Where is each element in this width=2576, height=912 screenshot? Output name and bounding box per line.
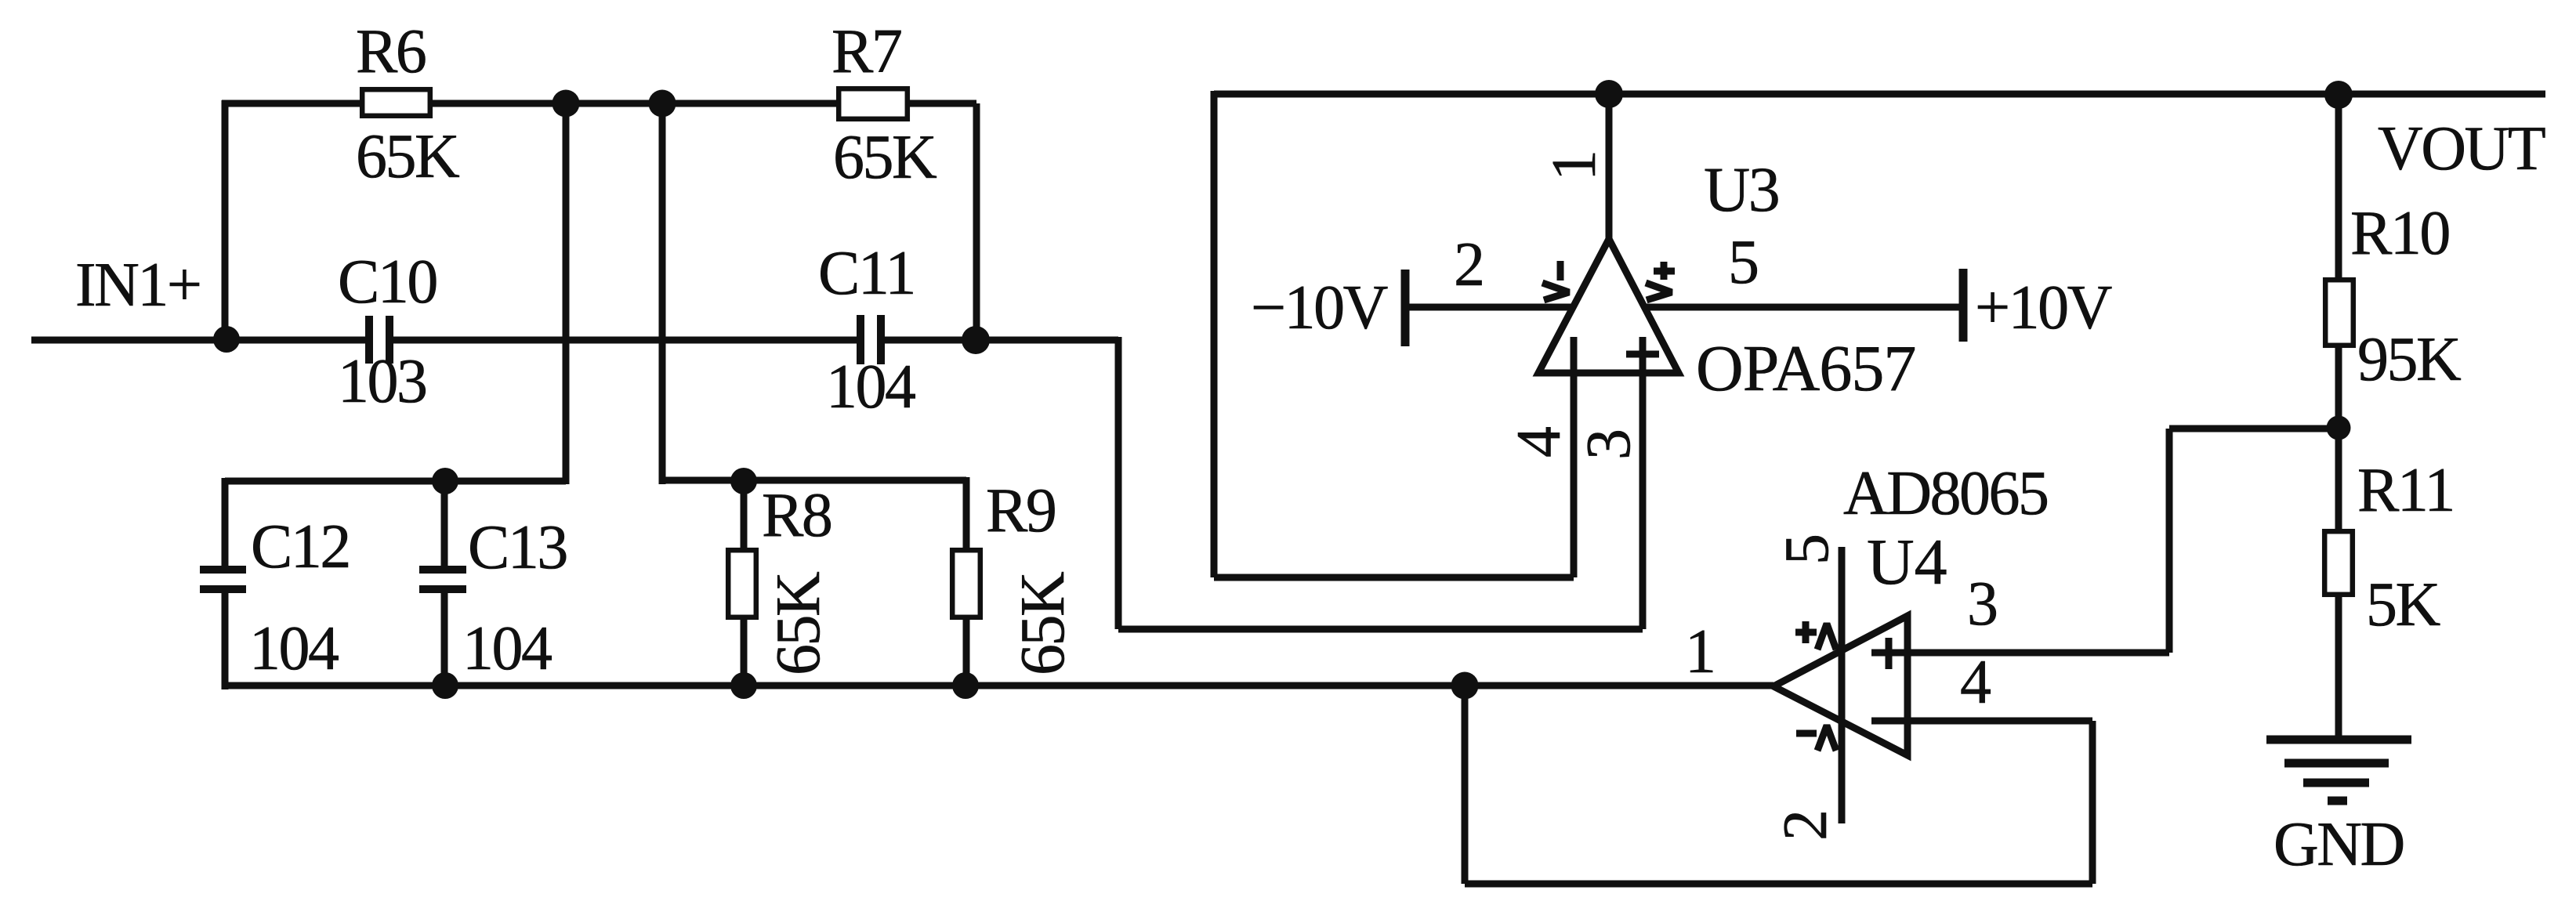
svg-text:C10: C10: [338, 248, 437, 317]
svg-text:C11: C11: [818, 239, 915, 308]
svg-text:+10V: +10V: [1975, 273, 2112, 342]
svg-text:U3: U3: [1704, 154, 1778, 225]
svg-text:C13: C13: [468, 513, 567, 582]
svg-text:R9: R9: [986, 476, 1055, 545]
svg-text:VOUT: VOUT: [2378, 114, 2545, 183]
svg-text:4: 4: [1960, 648, 1991, 717]
svg-text:5: 5: [1728, 228, 1758, 297]
svg-text:−10V: −10V: [1251, 273, 1388, 342]
svg-text:OPA657: OPA657: [1696, 332, 1915, 405]
svg-text:R11: R11: [2357, 456, 2454, 525]
svg-text:4: 4: [1505, 427, 1574, 458]
svg-text:65K: 65K: [356, 122, 459, 191]
svg-text:2: 2: [1771, 812, 1840, 841]
svg-text:R10: R10: [2350, 199, 2449, 268]
svg-text:R8: R8: [762, 481, 831, 550]
svg-text:104: 104: [826, 353, 915, 422]
svg-text:GND: GND: [2273, 810, 2404, 879]
svg-text:1: 1: [1540, 152, 1609, 182]
svg-text:95K: 95K: [2357, 325, 2461, 394]
svg-text:AD8065: AD8065: [1843, 459, 2048, 528]
svg-text:65K: 65K: [764, 572, 833, 675]
svg-text:C12: C12: [251, 512, 350, 581]
svg-text:R7: R7: [831, 17, 901, 86]
svg-text:2: 2: [1454, 230, 1484, 299]
svg-text:1: 1: [1685, 617, 1715, 686]
svg-text:104: 104: [462, 614, 552, 683]
svg-text:R6: R6: [356, 17, 426, 86]
svg-text:5K: 5K: [2366, 570, 2440, 639]
svg-text:5: 5: [1773, 536, 1842, 566]
svg-text:65K: 65K: [1009, 572, 1078, 675]
svg-text:IN1+: IN1+: [75, 251, 201, 320]
svg-text:103: 103: [338, 347, 426, 416]
svg-text:65K: 65K: [833, 123, 937, 192]
svg-text:104: 104: [249, 614, 339, 683]
svg-text:3: 3: [1574, 431, 1643, 461]
svg-text:U4: U4: [1867, 526, 1947, 599]
svg-text:3: 3: [1967, 570, 1997, 639]
